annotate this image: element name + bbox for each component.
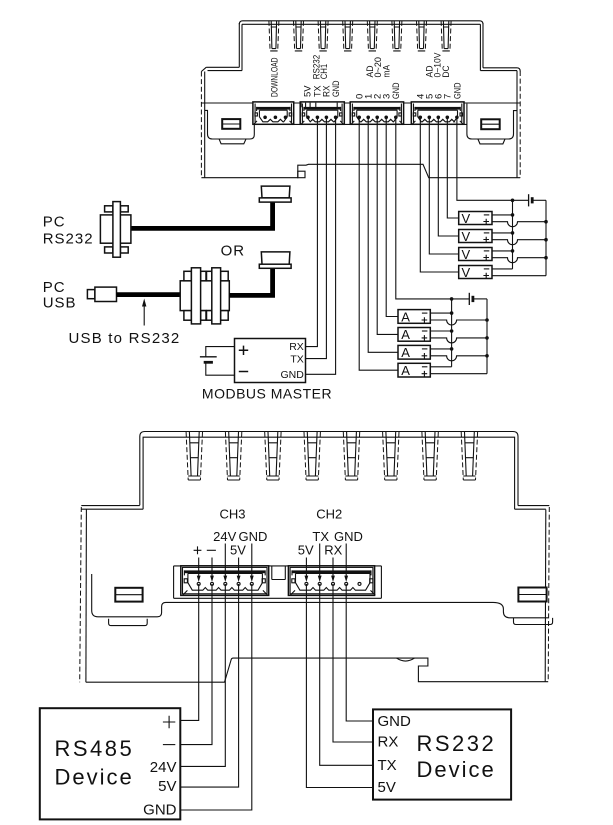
arrow to CH2.3 bbox=[332, 558, 334, 577]
svg-text:CH2: CH2 bbox=[316, 507, 342, 522]
A right bus bbox=[486, 299, 488, 374]
svg-text:RS232: RS232 bbox=[417, 731, 497, 756]
svg-text:TX: TX bbox=[378, 757, 397, 774]
clip B3 bbox=[265, 432, 281, 480]
USB to RS232 adapter bbox=[180, 268, 229, 324]
junction dots A group bbox=[450, 297, 489, 358]
top module left shoulder bbox=[201, 67, 242, 71]
clip 6 bbox=[392, 21, 402, 51]
connector CH2 bbox=[288, 566, 375, 596]
wire A3 minus to left bus bbox=[430, 348, 451, 350]
right ear tab bbox=[478, 139, 505, 144]
battery BV short plate bbox=[531, 197, 534, 203]
svg-text:A: A bbox=[401, 309, 410, 324]
label minus (CH3) bbox=[207, 549, 216, 551]
battery B1 wires bbox=[206, 347, 235, 376]
svg-text:GND: GND bbox=[280, 369, 304, 381]
wire J2.TX to MODBUS RX bbox=[306, 119, 318, 347]
arrow to CH3.4 bbox=[238, 558, 240, 577]
svg-text:A: A bbox=[401, 345, 410, 360]
wire V1 plus with hop to right bus bbox=[492, 222, 546, 227]
svg-text:CH1: CH1 bbox=[319, 64, 330, 80]
pin J3.4 3 bbox=[384, 116, 388, 120]
pin J3.3 2 bbox=[375, 116, 379, 120]
pin CH2.4 GND bbox=[345, 582, 348, 585]
plug P1 (to DOWNLOAD... RS232 CH1) bbox=[259, 186, 291, 202]
wire CH3.5 to RS485 GND bbox=[180, 584, 252, 810]
wire J4.4 to V4 bbox=[420, 119, 458, 272]
bottom module left edge bbox=[80, 507, 82, 682]
svg-text:A: A bbox=[401, 363, 410, 378]
wire J3.GND to battery BA bbox=[396, 119, 470, 299]
arrow to CH2.1 bbox=[305, 558, 307, 577]
arrow USB to RS232 bbox=[143, 304, 145, 326]
wire V3 minus to left bus bbox=[492, 250, 513, 252]
clip B2 bbox=[225, 432, 241, 480]
wire CH2.2 to RS232 TX bbox=[320, 584, 373, 765]
clip B1 bbox=[186, 432, 202, 480]
wire J3.0 to A4 bbox=[359, 119, 398, 370]
clip B5 bbox=[343, 432, 359, 480]
pin J4.5 GND bbox=[455, 116, 459, 120]
bottom module left shoulder bbox=[81, 506, 143, 510]
voltmeter V1 bbox=[459, 211, 492, 226]
wire A4 plus to right bus bbox=[430, 373, 487, 375]
top module raised right edge bbox=[480, 23, 483, 71]
connector DB9 PC RS232 bbox=[100, 202, 130, 258]
RS485 Device box bbox=[40, 708, 181, 819]
wire A4 minus to left bus end bbox=[430, 366, 451, 368]
svg-text:5V: 5V bbox=[378, 779, 396, 796]
svg-text:24V: 24V bbox=[150, 759, 177, 776]
clip 2 bbox=[294, 21, 304, 51]
right ear tab bbox=[514, 618, 553, 625]
svg-text:5V: 5V bbox=[230, 543, 246, 558]
wire J4.5 to V3 bbox=[429, 119, 458, 254]
svg-text:RX: RX bbox=[378, 733, 399, 750]
arrow to CH2.2 bbox=[319, 544, 321, 577]
bottom module underside bump bbox=[397, 658, 415, 661]
battery B1 long plate bbox=[200, 356, 217, 358]
svg-text:Device: Device bbox=[417, 757, 496, 782]
MODBUS MASTER box U1 bbox=[235, 339, 306, 383]
pin J4.1 4 bbox=[419, 116, 423, 120]
wire CH2.4 to RS232 GND bbox=[346, 584, 373, 721]
svg-text:CH3: CH3 bbox=[219, 507, 245, 522]
top module connector tray edge bbox=[256, 123, 467, 125]
right mounting ear bbox=[467, 104, 517, 139]
left ear tab bbox=[219, 139, 246, 144]
battery BV long plate bbox=[528, 194, 530, 206]
ammeter A4 bbox=[398, 363, 430, 378]
bottom module right shoulder bbox=[515, 506, 550, 510]
wire CH2.1 to RS232 5V bbox=[306, 584, 373, 788]
clip 8 bbox=[441, 21, 451, 51]
wire J4.GND to battery BV bbox=[457, 119, 529, 200]
battery B1 short plate bbox=[204, 361, 213, 364]
svg-text:DC: DC bbox=[441, 65, 452, 77]
left ear tab bbox=[109, 619, 148, 626]
top module left edge bbox=[200, 72, 202, 178]
svg-text:mA: mA bbox=[381, 64, 392, 77]
svg-text:RX: RX bbox=[289, 341, 304, 353]
V left bus bbox=[512, 200, 514, 269]
svg-text:DOWNLOAD: DOWNLOAD bbox=[269, 57, 280, 97]
svg-text:GND: GND bbox=[143, 802, 177, 819]
label plus (CH3) bbox=[194, 546, 202, 554]
clip B4 bbox=[304, 432, 320, 480]
connector CH3 bbox=[181, 566, 269, 596]
svg-text:GND: GND bbox=[391, 82, 402, 99]
svg-text:V: V bbox=[462, 229, 471, 244]
pin CH3.4 5V bbox=[237, 582, 240, 585]
battery BA short plate bbox=[471, 296, 474, 302]
wire J2.GND to MODBUS GND bbox=[306, 119, 336, 374]
svg-text:PC: PC bbox=[43, 279, 66, 296]
top module right shoulder bbox=[480, 68, 520, 71]
pin CH3.1 plus bbox=[197, 582, 200, 585]
svg-text:Device: Device bbox=[55, 765, 134, 790]
ammeter A3 bbox=[398, 345, 430, 360]
cable USB plug to adapter bbox=[116, 292, 180, 297]
svg-text:OR: OR bbox=[221, 243, 246, 260]
svg-text:V: V bbox=[462, 265, 471, 280]
wire V1 minus to left bus bbox=[492, 214, 513, 216]
pin DOWNLOAD.3 bbox=[284, 116, 288, 120]
junction dots V group bbox=[511, 199, 548, 260]
wire CH3.3 to RS485 24V bbox=[180, 584, 225, 766]
cable PC RS232 to plug P1 bbox=[130, 203, 272, 229]
pin J2.4 GND bbox=[334, 116, 338, 120]
wire battery BA to right bus bbox=[473, 298, 487, 300]
wire V2 minus to left bus bbox=[492, 232, 513, 234]
bottom module underside outline bbox=[86, 658, 548, 682]
clip 5 bbox=[367, 21, 377, 51]
wire CH2.3 to RS232 RX bbox=[333, 584, 373, 742]
wire V4 plus to right bus bbox=[492, 275, 546, 277]
bottom module raised top inner line bbox=[143, 437, 514, 509]
ammeter A2 bbox=[398, 327, 430, 342]
wire J4.6 to V2 bbox=[438, 119, 458, 236]
pin J4.3 6 bbox=[437, 116, 441, 120]
bottom module raised top outline bbox=[140, 432, 518, 506]
MODBUS minus terminal symbol bbox=[239, 371, 248, 373]
RS485 plus terminal bbox=[163, 716, 175, 729]
connector J2 RS232 CH1 bbox=[300, 102, 344, 124]
connector J3 AD 0-20mA bbox=[350, 102, 403, 124]
wire V4 minus to left bus end bbox=[492, 268, 513, 270]
svg-text:USB to RS232: USB to RS232 bbox=[69, 330, 181, 347]
pin CH2.5 bbox=[358, 582, 361, 585]
RS485 minus terminal bbox=[163, 744, 175, 746]
left ear hole bbox=[115, 588, 142, 602]
top module front edge bbox=[201, 102, 520, 104]
pin CH3.2 minus bbox=[211, 582, 214, 585]
top module raised top edge bbox=[239, 21, 483, 25]
bottom module right edge bbox=[548, 507, 549, 682]
ammeter A1 bbox=[398, 309, 430, 324]
pin CH2.1 5V bbox=[305, 582, 308, 585]
wire A1 plus with hop to right bus bbox=[430, 320, 487, 325]
top module raised left edge bbox=[239, 23, 242, 71]
pin J2.1 5V bbox=[306, 116, 310, 120]
wire CH3.1 to RS485 plus bbox=[180, 584, 198, 720]
wire V3 plus with hop to right bus bbox=[492, 258, 546, 263]
svg-text:RS232: RS232 bbox=[43, 231, 94, 248]
wire J3.2 to A2 bbox=[377, 119, 398, 334]
svg-text:TX: TX bbox=[290, 353, 303, 365]
clip 1 bbox=[269, 21, 279, 51]
RS232 Device box bbox=[373, 709, 511, 799]
clip B8 bbox=[461, 432, 477, 480]
connector J4 AD 0-10V bbox=[411, 102, 464, 124]
svg-text:RX: RX bbox=[324, 543, 342, 558]
arrow to CH3.1 bbox=[198, 558, 200, 577]
wire V2 plus with hop to right bus bbox=[492, 240, 546, 245]
svg-text:RS485: RS485 bbox=[55, 736, 135, 761]
MODBUS plus terminal symbol bbox=[239, 346, 248, 355]
pin J3.5 GND bbox=[394, 116, 398, 120]
svg-text:5V: 5V bbox=[298, 543, 314, 558]
top module underside outline bbox=[201, 164, 520, 177]
right ear hole bbox=[481, 119, 500, 129]
wire A2 plus with hop to right bus bbox=[430, 338, 487, 343]
pin CH3.5 GND bbox=[250, 582, 253, 585]
pin CH2.3 RX bbox=[332, 582, 335, 585]
svg-text:GND: GND bbox=[452, 82, 463, 99]
wire J4.7 to V1 bbox=[447, 119, 458, 218]
arrow to CH3.5 bbox=[251, 544, 253, 577]
right ear hole bbox=[518, 588, 546, 602]
clip 7 bbox=[417, 21, 427, 51]
voltmeter V3 bbox=[459, 247, 492, 262]
pin J2.2 TX bbox=[316, 116, 320, 120]
svg-text:USB: USB bbox=[43, 295, 77, 312]
svg-text:5V: 5V bbox=[158, 778, 176, 795]
svg-text:GND: GND bbox=[331, 80, 342, 97]
wire CH3.2 to RS485 minus bbox=[180, 584, 212, 745]
svg-text:PC: PC bbox=[43, 214, 66, 231]
svg-text:A: A bbox=[401, 327, 410, 342]
svg-text:GND: GND bbox=[378, 713, 412, 730]
pin J4.2 5 bbox=[428, 116, 432, 120]
pin DOWNLOAD.1 bbox=[263, 116, 267, 120]
bottom module DIN channel bbox=[92, 574, 549, 618]
clip 3 bbox=[318, 21, 328, 51]
cable adapter to plug P2 bbox=[229, 269, 272, 296]
connector J1 DOWNLOAD bbox=[253, 102, 294, 124]
svg-text:V: V bbox=[462, 247, 471, 262]
pin J2.3 RX bbox=[325, 116, 329, 120]
connector tray bbox=[174, 566, 382, 598]
voltmeter V4 bbox=[459, 265, 492, 280]
pin J3.2 1 bbox=[366, 116, 370, 120]
pin J4.4 7 bbox=[446, 116, 450, 120]
wire battery BV to right bus bbox=[532, 199, 546, 201]
wire A2 minus to left bus bbox=[430, 330, 451, 332]
arrow to CH2.4 bbox=[345, 544, 347, 577]
top module right edge bbox=[519, 71, 521, 178]
pin J3.1 0 bbox=[357, 116, 361, 120]
pin DOWNLOAD.2 bbox=[274, 116, 278, 120]
plug P2 bbox=[259, 252, 291, 268]
pin CH2.2 TX bbox=[318, 582, 321, 585]
svg-text:MODBUS MASTER: MODBUS MASTER bbox=[202, 386, 332, 402]
wire J2.RX to MODBUS TX bbox=[306, 119, 327, 359]
divider between CH3 and CH2 bbox=[272, 566, 286, 580]
pin CH3.3 24V bbox=[224, 582, 227, 585]
svg-text:V: V bbox=[462, 211, 471, 226]
left ear hole bbox=[222, 119, 240, 129]
wire A3 plus with hop to right bus bbox=[430, 356, 487, 361]
clip B6 bbox=[383, 432, 399, 480]
wire CH3.4 to RS485 5V bbox=[180, 584, 238, 787]
arrow to CH3.3 bbox=[224, 544, 226, 577]
voltmeter V2 bbox=[459, 229, 492, 244]
wire A1 minus to left bus bbox=[430, 312, 451, 314]
battery BA long plate bbox=[468, 293, 470, 305]
V right bus bbox=[545, 200, 547, 275]
clip 4 bbox=[343, 21, 353, 51]
wire J3.3 to A1 bbox=[386, 119, 398, 317]
A left bus bbox=[451, 299, 453, 367]
wire J3.1 to A3 bbox=[368, 119, 398, 352]
clip B7 bbox=[422, 432, 438, 480]
arrow to CH3.2 bbox=[211, 558, 213, 577]
top module underside foot bbox=[298, 171, 305, 178]
USB plug bbox=[87, 287, 116, 301]
left mounting ear bbox=[205, 110, 255, 139]
